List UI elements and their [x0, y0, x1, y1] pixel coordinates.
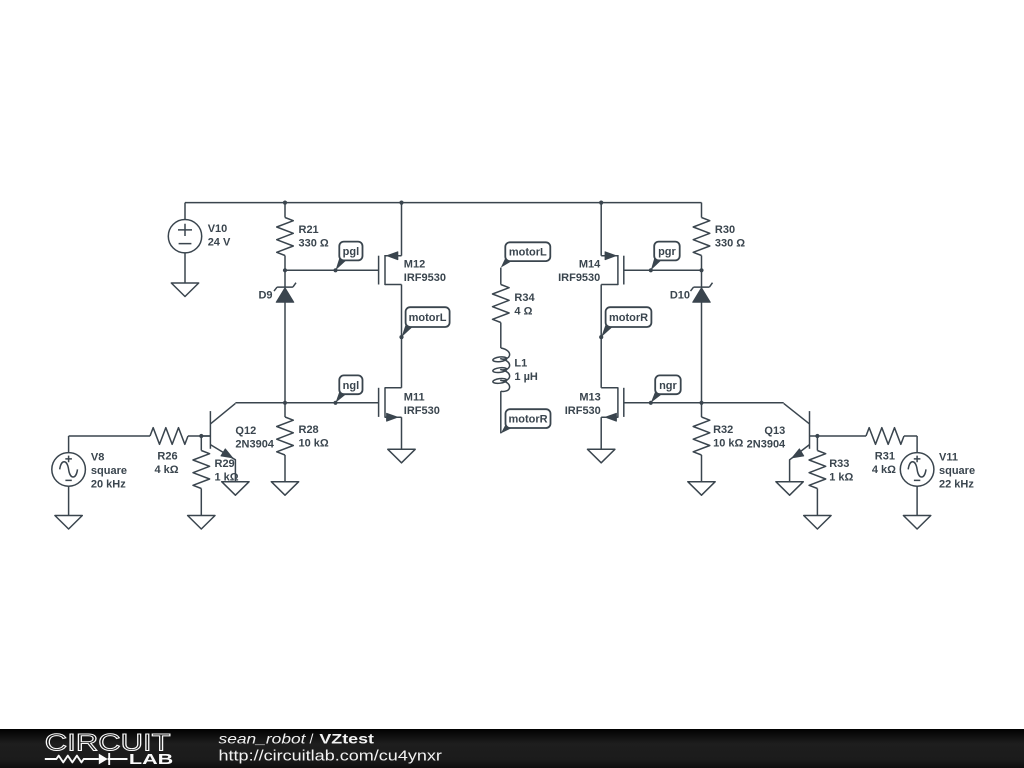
wire D9 anode down to lower rail	[284, 302, 286, 403]
wire M11 source to ground	[401, 417, 403, 449]
svg-text:Q13: Q13	[764, 425, 785, 437]
svg-text:Q12: Q12	[235, 425, 256, 437]
svg-text:R30: R30	[715, 224, 735, 236]
svg-text:1 kΩ: 1 kΩ	[829, 471, 853, 483]
node junction rail/M14	[599, 201, 603, 205]
node junction R26/Q12 base/R29	[199, 434, 203, 438]
wire right gate net ngr rail	[624, 402, 784, 404]
voltage source V8 square 20kHz	[52, 452, 127, 491]
resistor R33 1 kohm	[809, 436, 853, 516]
resistor R34 4 ohm	[492, 285, 535, 323]
node junction rail/R21	[283, 201, 287, 205]
net flag motorR at load bottom	[501, 409, 551, 433]
svg-text:D9: D9	[258, 290, 272, 302]
svg-text:1 kΩ: 1 kΩ	[215, 471, 239, 483]
wire V11 bottom lead	[916, 486, 918, 515]
svg-text:10 kΩ: 10 kΩ	[299, 437, 329, 449]
node junction D10/R32/ngr rail	[699, 401, 703, 405]
svg-text:M14: M14	[579, 258, 601, 270]
svg-text:motorL: motorL	[409, 312, 447, 324]
svg-text:pgr: pgr	[658, 246, 676, 258]
svg-text:motorR: motorR	[609, 312, 648, 324]
node junction R30/D10/gate-right	[699, 268, 703, 272]
ground below R32	[688, 482, 715, 496]
wire rail to R21	[284, 203, 286, 218]
svg-text:V10: V10	[208, 223, 228, 235]
svg-text:R34: R34	[514, 292, 535, 304]
ground below M13	[588, 449, 615, 463]
node junction R21/D9/gate-left	[283, 268, 287, 272]
ground below Q13 emitter	[776, 482, 803, 496]
net flag pgr	[649, 242, 680, 273]
wire rail to R30	[701, 203, 703, 218]
ground below Q12 emitter	[222, 482, 249, 496]
wire left PMOS gate net pgl	[285, 269, 379, 271]
ground below V11	[903, 516, 930, 530]
ground below R33	[804, 516, 831, 530]
wire M14 source to rail	[600, 203, 602, 256]
svg-text:R32: R32	[713, 424, 733, 436]
wire M14 drain to motorR node	[600, 285, 602, 338]
svg-text:IRF530: IRF530	[404, 405, 440, 417]
resistor R29 1 kohm	[193, 436, 239, 516]
node junction D9/R28/ngl rail	[283, 401, 287, 405]
resistor R28 10 kohm	[277, 403, 329, 482]
footer bar background	[0, 729, 1024, 768]
svg-text:motorR: motorR	[508, 414, 547, 426]
voltage source V10 24V DC	[168, 220, 231, 253]
wire M13 drain up to motorR node	[600, 337, 602, 388]
svg-text:V8: V8	[91, 452, 104, 464]
svg-text:L1: L1	[514, 358, 527, 370]
svg-text:M12: M12	[404, 258, 425, 270]
MOSFET M14 IRF9530 (P-channel)	[558, 252, 624, 285]
wire node to D10 cathode	[701, 270, 703, 287]
wire right PMOS gate net pgr	[624, 269, 702, 271]
wire node to D9 cathode	[284, 270, 286, 287]
wire V8 top lead	[68, 436, 70, 453]
svg-text:ngr: ngr	[659, 380, 677, 392]
MOSFET M12 IRF9530 (P-channel)	[379, 252, 446, 285]
svg-text:24 V: 24 V	[208, 237, 231, 249]
svg-text:/: /	[310, 730, 314, 746]
svg-text:LAB: LAB	[129, 752, 173, 768]
inductor L1 1uH	[493, 348, 538, 391]
transistor Q12 2N3904 (NPN)	[201, 403, 275, 481]
svg-text:http://circuitlab.com/cu4ynxr: http://circuitlab.com/cu4ynxr	[219, 748, 442, 765]
svg-text:2N3904: 2N3904	[235, 438, 274, 450]
wire V10 bottom lead	[184, 253, 186, 283]
svg-text:M11: M11	[404, 391, 425, 403]
net flag ngr	[649, 375, 681, 405]
svg-text:ngl: ngl	[343, 380, 360, 392]
net flag ngl	[333, 375, 362, 405]
transistor Q13 2N3904 (NPN)	[747, 403, 818, 481]
ground below R28	[271, 482, 298, 496]
net flag motorL at half-bridge	[399, 307, 449, 339]
svg-text:M13: M13	[579, 391, 600, 403]
wire M11 drain up to motorL node	[401, 337, 403, 388]
wire V10 top lead	[184, 203, 186, 220]
ground below M11	[388, 449, 415, 463]
zener diode D9	[258, 283, 296, 303]
svg-text:sean_robot: sean_robot	[219, 730, 307, 746]
resistor R26 4 kohm	[69, 428, 211, 476]
net flag motorL at load top	[501, 242, 551, 267]
wire left gate net ngl rail	[235, 402, 378, 404]
svg-text:V11: V11	[939, 452, 958, 464]
svg-text:R31: R31	[875, 451, 895, 463]
resistor R30 330 ohm	[693, 218, 745, 256]
resistor R21 330 ohm	[277, 218, 329, 256]
net flag motorR at half-bridge	[599, 307, 651, 339]
resistor R32 10 kohm	[693, 403, 743, 482]
resistor R31 4 kohm	[817, 428, 917, 476]
node junction rail/M12	[399, 201, 403, 205]
wire R21 to node pgl	[284, 256, 286, 271]
svg-text:1 µH: 1 µH	[514, 371, 538, 383]
svg-text:330 Ω: 330 Ω	[299, 237, 329, 249]
wire motorL flag to R34	[500, 268, 502, 285]
wire V11 top lead	[916, 436, 918, 453]
wire M12 source to rail	[401, 203, 403, 256]
svg-text:4 kΩ: 4 kΩ	[872, 464, 896, 476]
voltage source V11 square 22kHz	[900, 452, 975, 491]
svg-text:R28: R28	[299, 424, 319, 436]
wire R34 to L1	[500, 323, 502, 349]
svg-text:20 kHz: 20 kHz	[91, 478, 126, 490]
svg-text:square: square	[91, 465, 127, 477]
MOSFET M11 IRF530 (N-channel)	[379, 387, 440, 421]
svg-text:motorL: motorL	[509, 247, 547, 259]
svg-text:R26: R26	[157, 451, 177, 463]
wire M13 source to ground	[600, 417, 602, 449]
svg-text:IRF530: IRF530	[565, 405, 601, 417]
svg-text:D10: D10	[670, 290, 690, 302]
ground below V8	[55, 516, 82, 530]
svg-text:IRF9530: IRF9530	[558, 272, 600, 284]
ground below R29	[188, 516, 215, 530]
svg-text:330 Ω: 330 Ω	[715, 237, 745, 249]
CircuitLab logo resistor-diode squiggle	[45, 756, 99, 763]
svg-text:22 kHz: 22 kHz	[939, 478, 974, 490]
wire V8 bottom lead	[68, 486, 70, 515]
wire top supply rail	[185, 202, 702, 204]
svg-text:2N3904: 2N3904	[747, 438, 786, 450]
wire R30 to node pgr	[701, 256, 703, 271]
svg-text:VZtest: VZtest	[319, 730, 374, 746]
wire L1 to motorR flag	[500, 391, 502, 433]
net flag pgl	[333, 242, 362, 273]
svg-text:4 kΩ: 4 kΩ	[154, 464, 178, 476]
svg-text:IRF9530: IRF9530	[404, 272, 446, 284]
svg-text:pgl: pgl	[343, 246, 360, 258]
svg-text:R21: R21	[299, 224, 319, 236]
node junction R31/Q13 base/R33	[815, 434, 819, 438]
svg-text:10 kΩ: 10 kΩ	[713, 437, 743, 449]
zener diode D10	[670, 283, 713, 303]
wire M12 drain to motorL node	[401, 285, 403, 338]
ground below V10	[171, 283, 198, 297]
svg-text:4 Ω: 4 Ω	[514, 305, 532, 317]
wire D10 anode down to lower rail	[701, 302, 703, 403]
MOSFET M13 IRF530 (N-channel)	[565, 387, 624, 421]
svg-text:square: square	[939, 465, 975, 477]
svg-text:R33: R33	[829, 458, 849, 470]
svg-text:R29: R29	[215, 458, 235, 470]
